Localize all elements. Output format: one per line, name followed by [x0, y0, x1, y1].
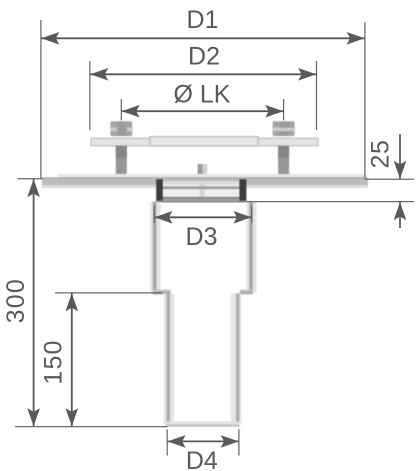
svg-text:150: 150: [40, 339, 68, 384]
svg-text:D4: D4: [186, 447, 218, 471]
svg-text:300: 300: [2, 278, 30, 323]
svg-text:D1: D1: [187, 6, 219, 34]
svg-text:D3: D3: [186, 223, 218, 251]
svg-text:Ø LK: Ø LK: [174, 80, 231, 108]
svg-text:D2: D2: [188, 43, 220, 71]
svg-text:25: 25: [367, 139, 395, 168]
